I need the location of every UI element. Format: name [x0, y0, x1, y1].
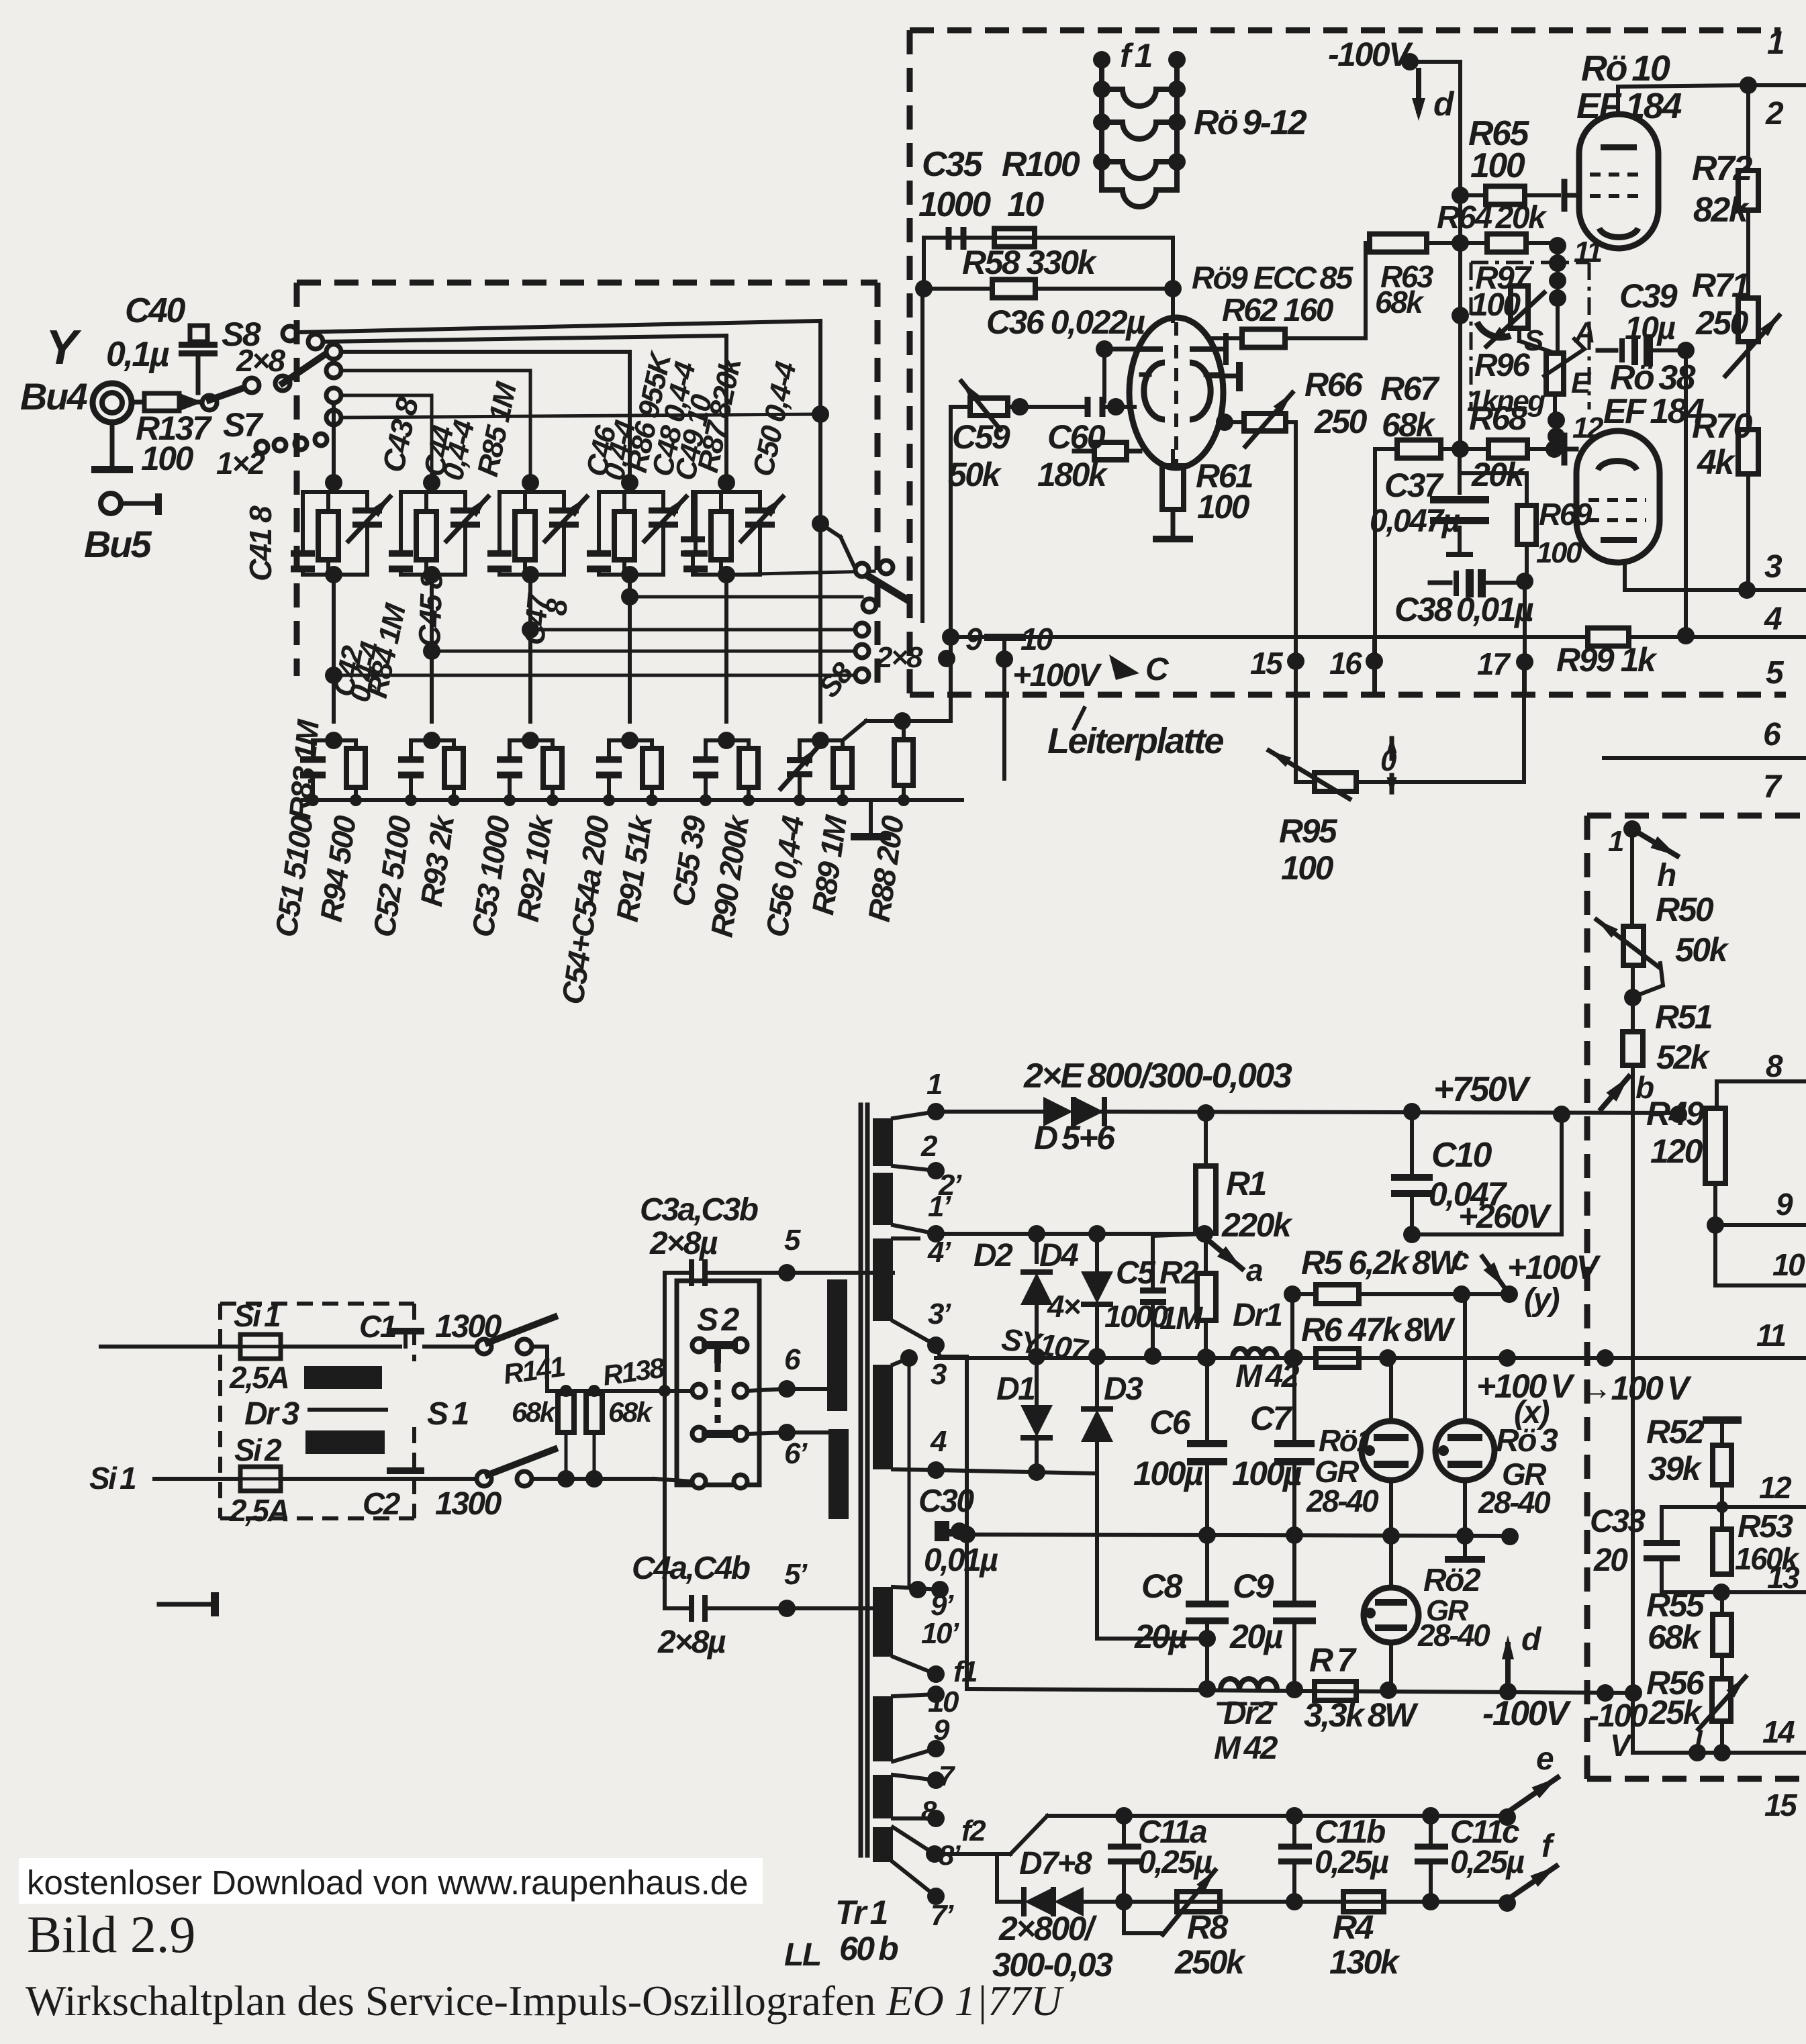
- svg-text:3’: 3’: [928, 1298, 951, 1330]
- line 11 +100V rail: [936, 1356, 1806, 1360]
- Roe10 anode lead: [1616, 87, 1620, 114]
- svg-text:1: 1: [1767, 26, 1784, 61]
- svg-text:D2: D2: [973, 1238, 1013, 1273]
- wire R72 to R71: [1746, 210, 1750, 298]
- arrow d lower: [1505, 1645, 1511, 1692]
- resistor R69 100: [1517, 505, 1536, 544]
- svg-text:D3: D3: [1104, 1371, 1143, 1407]
- tap 3' loop: [936, 1345, 940, 1357]
- svg-text:180k: 180k: [1037, 456, 1108, 493]
- Roe10 internals: [1590, 173, 1646, 177]
- attenuator bottom cell 1: [325, 732, 342, 749]
- svg-text:28-40: 28-40: [1417, 1618, 1490, 1653]
- transformer core: [859, 1105, 863, 1855]
- svg-text:Bu5: Bu5: [84, 523, 152, 565]
- svg-text:C60: C60: [1047, 418, 1106, 456]
- svg-text:68k: 68k: [512, 1396, 557, 1428]
- svg-text:D4: D4: [1039, 1238, 1078, 1273]
- capacitor C1 1300: [387, 1328, 424, 1334]
- S2 contacts row4: [692, 1475, 706, 1488]
- wire link row cell2: [432, 650, 862, 653]
- svg-text:10µ: 10µ: [1625, 311, 1675, 346]
- svg-text:100: 100: [1197, 488, 1250, 526]
- attenuator top cell 5: [724, 483, 728, 492]
- tube Roe2 GR 28-40: [1389, 1535, 1393, 1588]
- transformer winding bars: [873, 1118, 893, 1166]
- line tap4 row: [936, 1470, 1097, 1473]
- f2 wire: [935, 1852, 1010, 1856]
- svg-text:15: 15: [1250, 646, 1284, 681]
- line 12: [1720, 1485, 1724, 1529]
- svg-text:Rö 3: Rö 3: [1496, 1423, 1558, 1459]
- label 2 bus: [1748, 83, 1806, 87]
- resistor R49 120: [1705, 1108, 1725, 1183]
- resistor R7 3,3k 8W: [1315, 1682, 1356, 1700]
- svg-text:Bu4: Bu4: [20, 375, 88, 418]
- svg-text:2×8: 2×8: [875, 641, 923, 674]
- stub bar below Roe3 node: [1463, 1536, 1467, 1556]
- line 3 bus: [1625, 588, 1806, 592]
- wire R58 node down to node 8: [920, 289, 924, 621]
- capacitor C11c 0,25u: [1429, 1816, 1433, 1847]
- diode D1: [1035, 1354, 1039, 1406]
- svg-text:R69: R69: [1539, 497, 1593, 532]
- potentiometer R56 25k: [1720, 1655, 1724, 1679]
- svg-text:Rö 10: Rö 10: [1581, 48, 1670, 89]
- svg-text:C5: C5: [1116, 1255, 1156, 1291]
- resistor R88 200: [902, 721, 906, 740]
- svg-text:R8: R8: [1187, 1908, 1229, 1946]
- wire S7 line c: [341, 414, 820, 418]
- node 9: [938, 650, 955, 667]
- svg-text:0,01µ: 0,01µ: [924, 1543, 998, 1578]
- svg-text:C3a,C3b: C3a,C3b: [640, 1192, 758, 1228]
- arrow e: [1507, 1778, 1558, 1812]
- watermark box: [19, 1858, 763, 1904]
- svg-text:a: a: [1246, 1253, 1263, 1287]
- wire R5 column: [1290, 1294, 1294, 1355]
- svg-text:250: 250: [1314, 403, 1368, 440]
- tube Roe1 GR 28-40: [1389, 1358, 1393, 1421]
- resistor R4 130k: [1343, 1892, 1384, 1912]
- attenuator bottom cell 5: [718, 732, 735, 749]
- capacitor C4a C4b 2x8u: [665, 1606, 692, 1610]
- svg-text:2×8µ: 2×8µ: [657, 1624, 726, 1660]
- svg-text:+100V: +100V: [1507, 1249, 1601, 1286]
- svg-text:C36 0,022µ: C36 0,022µ: [986, 303, 1145, 341]
- diode D2: [1035, 1234, 1039, 1262]
- svg-text:R71: R71: [1692, 266, 1749, 304]
- svg-text:C: C: [1145, 652, 1170, 687]
- wire cell6 long vertical: [818, 322, 822, 722]
- svg-text:28-40: 28-40: [1306, 1483, 1379, 1518]
- attenuator bottom cell 3: [522, 732, 539, 749]
- wire attenuator bottom bus: [303, 798, 962, 802]
- svg-text:R62 160: R62 160: [1222, 293, 1334, 328]
- capacitor C2 1300: [281, 1477, 477, 1481]
- arrow f: [1507, 1866, 1556, 1900]
- ground R61: [1171, 509, 1176, 536]
- resistor R72 82k: [1738, 171, 1758, 210]
- svg-text:M 42: M 42: [1214, 1731, 1278, 1766]
- svg-text:R95: R95: [1279, 812, 1338, 850]
- diodes D7+8: [995, 1854, 999, 1902]
- svg-text:C1: C1: [359, 1309, 396, 1344]
- svg-text:10: 10: [1772, 1247, 1805, 1282]
- resistor R70 4k: [1746, 342, 1750, 430]
- dashed line Leiterplatte: [910, 692, 1786, 698]
- resistor R62 160: [1208, 336, 1242, 340]
- svg-text:R67: R67: [1380, 370, 1440, 407]
- transformer primary bars: [827, 1279, 847, 1411]
- svg-text:EF 184: EF 184: [1576, 86, 1682, 126]
- diode D4: [1095, 1234, 1099, 1274]
- line 4 bus R99: [951, 635, 1588, 639]
- svg-text:100: 100: [1281, 849, 1334, 887]
- attenuator top cell 3: [528, 483, 532, 492]
- svg-text:Rö 9-12: Rö 9-12: [1194, 103, 1307, 142]
- potentiometer R8 250k: [1177, 1892, 1220, 1912]
- node S8 output: [894, 712, 911, 730]
- choke Dr3 bars: [304, 1366, 382, 1389]
- svg-text:R72: R72: [1692, 149, 1752, 188]
- svg-text:3,3k 8W: 3,3k 8W: [1304, 1696, 1419, 1734]
- grid tick Roe9 upper: [1208, 374, 1235, 379]
- svg-text:R99 1k: R99 1k: [1556, 641, 1658, 679]
- svg-text:3: 3: [931, 1358, 947, 1391]
- svg-text:C41 8: C41 8: [243, 505, 278, 581]
- capacitor C10 0,047: [1410, 1112, 1414, 1177]
- resistor R65 100: [1460, 193, 1486, 197]
- wire -100V rail column: [1458, 62, 1462, 449]
- -100V to divider: [1597, 1684, 1614, 1702]
- fuse Si1 2,5A: [240, 1334, 281, 1359]
- attenuator top cell 4: [628, 483, 632, 492]
- fuse Si2 2,5A: [240, 1467, 281, 1491]
- tube Roe38 EF184: [1576, 431, 1660, 563]
- potentiometer R66 250: [1216, 413, 1233, 431]
- svg-text:C7: C7: [1250, 1400, 1293, 1437]
- resistor R99 1k: [1588, 628, 1629, 646]
- resistor R51 52k: [1631, 965, 1635, 1032]
- line 1 from transformer: [936, 1110, 1051, 1114]
- wire mains upper: [101, 1345, 240, 1349]
- svg-text:C2: C2: [363, 1486, 401, 1521]
- resistor R64 20k: [1487, 234, 1526, 252]
- resistor R63 68k: [1366, 241, 1370, 245]
- dash-dot box R96 R97: [1471, 261, 1589, 264]
- wire link row cell4: [630, 595, 862, 599]
- svg-text:2: 2: [1765, 96, 1784, 132]
- svg-text:2×8µ: 2×8µ: [649, 1226, 718, 1261]
- resistor R52 39k: [1703, 1416, 1742, 1424]
- svg-text:130k: 130k: [1329, 1943, 1400, 1981]
- ground below Bu4: [110, 423, 115, 467]
- svg-text:Dr1: Dr1: [1233, 1298, 1282, 1333]
- svg-text:100: 100: [141, 440, 194, 477]
- svg-text:0,047µ: 0,047µ: [1370, 503, 1460, 539]
- svg-text:50k: 50k: [1675, 931, 1729, 969]
- svg-text:Rö2: Rö2: [1423, 1563, 1481, 1598]
- svg-text:8: 8: [1766, 1049, 1783, 1083]
- dashed box mains filter: [220, 1302, 414, 1306]
- dashed box amplifier Leiterplatte: [910, 28, 1780, 34]
- wire D3 bottom row: [1097, 1637, 1207, 1641]
- capacitor C39 10u: [1598, 348, 1616, 353]
- svg-text:b: b: [1635, 1070, 1654, 1105]
- svg-text:R68: R68: [1469, 399, 1527, 437]
- svg-text:C35: C35: [922, 145, 983, 184]
- svg-text:Bild 2.9: Bild 2.9: [27, 1905, 195, 1963]
- svg-text:9: 9: [1776, 1187, 1793, 1222]
- arrow d: [1416, 70, 1421, 111]
- svg-text:Dr2: Dr2: [1223, 1696, 1274, 1731]
- svg-text:4k: 4k: [1697, 443, 1736, 482]
- svg-text:250k: 250k: [1174, 1943, 1246, 1981]
- svg-text:14: 14: [1762, 1714, 1795, 1749]
- svg-text:R2: R2: [1159, 1255, 1199, 1291]
- wire C38 node down to node 17: [1523, 581, 1527, 695]
- node 12: [1548, 411, 1565, 429]
- resistor R138 68k: [586, 1394, 602, 1432]
- svg-text:68k: 68k: [608, 1396, 654, 1428]
- svg-text:1000: 1000: [918, 185, 991, 224]
- dashed box attenuator: [297, 280, 877, 286]
- svg-text:12: 12: [1759, 1470, 1792, 1505]
- svg-text:2×800/: 2×800/: [998, 1910, 1098, 1947]
- svg-text:100: 100: [1536, 536, 1582, 569]
- wire S7 line b: [341, 394, 432, 397]
- node 1 h arrow: [1623, 820, 1641, 838]
- switch S8 right wafer: [855, 563, 869, 577]
- wire +260 drop: [1560, 1114, 1564, 1234]
- svg-text:4: 4: [930, 1425, 947, 1458]
- svg-text:15: 15: [1764, 1788, 1798, 1822]
- resistor R137 100: [144, 393, 179, 411]
- S2 contacts row2: [692, 1384, 706, 1398]
- capacitor C40 0,1u: [190, 326, 207, 342]
- attenuator bottom cell 2: [423, 732, 440, 749]
- dashed box CRT divider: [1587, 813, 1776, 819]
- svg-text:Rö9 ECC 85: Rö9 ECC 85: [1192, 260, 1353, 295]
- svg-text:E: E: [1571, 367, 1592, 399]
- attenuator bottom cell 6: [812, 732, 829, 749]
- svg-text:LL: LL: [784, 1937, 820, 1973]
- svg-text:R96: R96: [1474, 348, 1530, 383]
- svg-text:100µ: 100µ: [1232, 1455, 1302, 1492]
- potentiometer R50 50k: [1623, 926, 1644, 965]
- row f: [1104, 1900, 1507, 1904]
- resistor R61 100: [1171, 451, 1175, 466]
- line -100V row: [967, 1689, 1633, 1693]
- svg-text:0,25µ: 0,25µ: [1315, 1845, 1388, 1880]
- svg-text:100µ: 100µ: [1133, 1455, 1203, 1492]
- connector Bu4: [93, 383, 132, 422]
- svg-text:R5 6,2k 8W: R5 6,2k 8W: [1301, 1244, 1463, 1281]
- wire S8 line 1: [297, 321, 820, 332]
- svg-text:2×8: 2×8: [236, 343, 285, 378]
- switch S1 lower: [477, 1471, 491, 1486]
- wire link row cell3: [530, 628, 862, 632]
- svg-text:6’: 6’: [784, 1437, 808, 1470]
- svg-text:e: e: [1536, 1741, 1554, 1777]
- svg-text:1: 1: [926, 1068, 942, 1101]
- wire cell4 feed: [326, 344, 341, 359]
- node 11 chain: [1549, 237, 1566, 254]
- svg-text:C4a,C4b: C4a,C4b: [632, 1551, 750, 1586]
- nodes 15 16 17: [1287, 652, 1304, 670]
- capacitor C33 20: [1662, 1505, 1722, 1509]
- potentiometer C59 50k: [951, 405, 970, 409]
- resistor R6 47k 8W: [1316, 1349, 1359, 1367]
- svg-text:C38 0,01µ: C38 0,01µ: [1394, 591, 1533, 628]
- Roe38 anode to line3: [1623, 563, 1627, 590]
- svg-text:R100: R100: [1002, 145, 1080, 184]
- attenuator top cell 2: [430, 483, 434, 492]
- capacitor C7 100u: [1292, 1358, 1296, 1445]
- svg-text:2: 2: [920, 1130, 938, 1163]
- svg-text:d: d: [1521, 1622, 1542, 1657]
- resistor R58 330k: [992, 280, 1035, 298]
- svg-text:C10: C10: [1431, 1136, 1492, 1175]
- switch S8 lever 1: [209, 385, 251, 400]
- svg-text:7’: 7’: [931, 1899, 954, 1932]
- svg-text:C39: C39: [1619, 277, 1678, 315]
- svg-text:0,25µ: 0,25µ: [1450, 1845, 1524, 1880]
- svg-text:10: 10: [1020, 622, 1053, 656]
- tube Roe10 EF184: [1579, 114, 1658, 248]
- svg-text:Tr 1: Tr 1: [835, 1894, 888, 1931]
- svg-text:17: 17: [1477, 646, 1511, 681]
- svg-text:10’: 10’: [921, 1617, 959, 1650]
- svg-text:A: A: [1574, 316, 1594, 349]
- capacitor C38 0,01u: [1430, 581, 1450, 585]
- marker 0 arrows: [1390, 738, 1394, 759]
- svg-text:Wirkschaltplan des Service-Imp: Wirkschaltplan des Service-Impuls-Oszill…: [26, 1977, 1064, 2025]
- svg-text:82k: 82k: [1693, 191, 1750, 230]
- svg-text:C59: C59: [952, 418, 1010, 456]
- svg-text:6: 6: [784, 1343, 801, 1376]
- capacitor C37 0,047u: [1458, 449, 1462, 493]
- svg-text:D1: D1: [996, 1371, 1035, 1407]
- svg-text:1000: 1000: [1104, 1299, 1168, 1334]
- svg-text:4×: 4×: [1047, 1289, 1080, 1324]
- wire right loop to tube grid: [1171, 238, 1175, 321]
- svg-text:10: 10: [1007, 185, 1044, 224]
- svg-text:R51: R51: [1655, 998, 1712, 1036]
- taps 7 8 f2: [927, 1771, 945, 1789]
- switch S8 lever 2: [275, 376, 290, 391]
- svg-text:0,047: 0,047: [1429, 1175, 1507, 1213]
- tube Roe9 ECC85: [1129, 318, 1223, 468]
- resistor R2 1M: [1204, 1234, 1208, 1273]
- svg-text:(y): (y): [1524, 1282, 1560, 1318]
- diode D3: [1095, 1354, 1099, 1410]
- resistor R141 68k: [558, 1394, 574, 1432]
- potentiometer R95 100: [1315, 773, 1356, 791]
- svg-text:+100V: +100V: [1012, 658, 1102, 693]
- +100V C terminal: [1002, 638, 1006, 779]
- svg-text:68k: 68k: [1375, 285, 1425, 320]
- S2 contacts row3: [692, 1427, 706, 1441]
- choke Dr2 M42: [1221, 1679, 1239, 1690]
- potentiometer R71 250: [1738, 298, 1758, 342]
- svg-text:20: 20: [1593, 1543, 1628, 1578]
- svg-text:39k: 39k: [1648, 1450, 1703, 1488]
- svg-text:20µ: 20µ: [1229, 1618, 1283, 1655]
- resistor R53 160k: [1713, 1529, 1731, 1574]
- svg-text:R53: R53: [1738, 1509, 1793, 1545]
- svg-text:f2: f2: [961, 1814, 986, 1847]
- svg-text:S7: S7: [223, 406, 264, 444]
- svg-text:C33: C33: [1590, 1504, 1646, 1539]
- capacitor C3a C3b 2x8u: [665, 1271, 692, 1275]
- svg-text:-100V: -100V: [1482, 1694, 1572, 1733]
- svg-text:68k: 68k: [1382, 406, 1436, 444]
- svg-text:R52: R52: [1646, 1413, 1705, 1451]
- wire Bu4 to R137: [132, 400, 144, 405]
- svg-text:68k: 68k: [1648, 1618, 1702, 1656]
- S2 contacts row1: [692, 1339, 706, 1352]
- resistor R68 20k: [1488, 440, 1527, 458]
- tube Roe3 GR 28-40: [1463, 1294, 1467, 1421]
- svg-text:1×2: 1×2: [216, 446, 265, 481]
- heater chain f1 Roe 9-12: [1093, 51, 1110, 68]
- connector Bu5: [101, 493, 121, 514]
- svg-text:6: 6: [1763, 717, 1781, 752]
- svg-text:R4: R4: [1333, 1908, 1374, 1946]
- svg-text:100: 100: [1470, 287, 1521, 323]
- resistor C60 180k: [1074, 449, 1094, 454]
- svg-text:h: h: [1657, 858, 1676, 893]
- arrow a: [1208, 1240, 1242, 1269]
- svg-text:Rö1: Rö1: [1319, 1423, 1372, 1458]
- svg-text:2,5A: 2,5A: [229, 1493, 288, 1528]
- svg-text:D7+8: D7+8: [1019, 1846, 1092, 1882]
- svg-text:R66: R66: [1304, 366, 1364, 403]
- svg-text:25k: 25k: [1648, 1694, 1703, 1731]
- transformer taps secondary: [927, 1103, 945, 1120]
- svg-text:13: 13: [1767, 1560, 1800, 1595]
- line 1' row: [936, 1232, 1204, 1236]
- svg-text:C9: C9: [1233, 1567, 1274, 1605]
- svg-text:5: 5: [1766, 655, 1785, 691]
- wire R137 to S7 node with arrow: [179, 400, 201, 405]
- svg-text:3: 3: [1764, 549, 1783, 585]
- line +260V: [1412, 1232, 1562, 1236]
- ground on bus: [869, 800, 873, 834]
- svg-text:1: 1: [1608, 825, 1623, 858]
- switch S7 contact: [202, 395, 217, 410]
- wire to C1: [281, 1345, 400, 1349]
- svg-text:2,5A: 2,5A: [229, 1360, 288, 1395]
- svg-text:60 b: 60 b: [839, 1930, 898, 1967]
- wire S7 line a: [341, 369, 530, 373]
- svg-text:220k: 220k: [1221, 1206, 1293, 1244]
- svg-text:S 2: S 2: [697, 1302, 740, 1338]
- capacitor C49 10: [681, 536, 705, 542]
- wire link row cell1: [334, 674, 862, 677]
- wire R67 left down to node 16: [1373, 449, 1377, 695]
- attenuator bottom cell 4: [621, 732, 638, 749]
- taps 9' 10' f1: [909, 1581, 926, 1598]
- svg-text:1’: 1’: [928, 1190, 951, 1223]
- svg-text:11: 11: [1756, 1318, 1786, 1353]
- svg-text:kostenloser Download von www.r: kostenloser Download von www.raupenhaus.…: [27, 1863, 749, 1902]
- arrow b: [1601, 1077, 1629, 1109]
- svg-text:5: 5: [784, 1224, 801, 1257]
- wire Roe10 to R72 node: [1740, 77, 1757, 94]
